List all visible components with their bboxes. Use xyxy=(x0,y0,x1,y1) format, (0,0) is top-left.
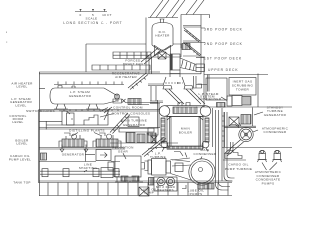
scale bar xyxy=(75,9,112,20)
handrail with stanchions xyxy=(54,82,124,85)
main boiler: steam drum xyxy=(159,103,211,117)
generator xyxy=(62,150,111,161)
boiler uptake diagonals to air heater xyxy=(148,75,209,105)
engine casing top / poop structure xyxy=(146,15,210,75)
L.P. steam system condenser label xyxy=(199,92,228,101)
svg-text:LEVEL: LEVEL xyxy=(12,120,23,124)
svg-text:LEVEL: LEVEL xyxy=(15,103,26,107)
svg-text:GENERATOR: GENERATOR xyxy=(69,94,92,98)
L.P. steam generator level deck xyxy=(39,110,160,112)
svg-text:LONG SECTION ℒ - PORT: LONG SECTION ℒ - PORT xyxy=(63,21,122,25)
distilling plants xyxy=(59,128,121,147)
condensate pumps xyxy=(255,150,282,185)
svg-text:BOILER: BOILER xyxy=(179,131,193,135)
control room level: room, door, console xyxy=(62,108,139,127)
D.O. heater vessel xyxy=(141,19,181,64)
svg-text:CONTROL ROOM: CONTROL ROOM xyxy=(113,105,143,109)
svg-text:GENERATOR: GENERATOR xyxy=(123,123,146,127)
svg-text:PUMP LEVEL: PUMP LEVEL xyxy=(9,157,31,161)
forward engine room bulkhead xyxy=(38,72,39,196)
inert gas scrubbing tower xyxy=(229,78,256,96)
boiler level deck xyxy=(39,148,125,150)
aft deck (cargo pump flat) xyxy=(222,147,292,149)
svg-text:LEVEL: LEVEL xyxy=(16,142,27,146)
svg-text:10 FT: 10 FT xyxy=(102,13,112,17)
standby turbine generator xyxy=(224,106,287,128)
svg-text:PUMPS: PUMPS xyxy=(262,181,275,185)
svg-text:CONDENSER: CONDENSER xyxy=(264,130,287,134)
svg-text:PUMPS: PUMPS xyxy=(190,192,203,196)
forced draft fan duct xyxy=(113,52,151,66)
main turbine generator xyxy=(110,113,178,143)
svg-text:0: 0 xyxy=(79,13,81,17)
1st poop deck line xyxy=(146,56,181,58)
svg-text:GENERATOR: GENERATOR xyxy=(264,113,287,117)
svg-text:TOWER: TOWER xyxy=(236,88,250,92)
svg-text:UPPER DECK: UPPER DECK xyxy=(208,68,238,72)
svg-text:CONDENSER: CONDENSER xyxy=(194,152,217,156)
rotary air heater box xyxy=(170,54,205,77)
main condenser xyxy=(171,148,217,189)
engine room upper flat xyxy=(150,104,292,108)
regenerative air heater band xyxy=(92,65,150,79)
svg-text:TANK TOP: TANK TOP xyxy=(13,180,31,184)
svg-text:3RD POOP DECK: 3RD POOP DECK xyxy=(204,28,243,32)
main boiler body xyxy=(167,117,203,147)
svg-text:AIR HEATER: AIR HEATER xyxy=(115,75,137,79)
svg-text:LEVEL: LEVEL xyxy=(16,85,27,89)
cargo oil pump turbine machine xyxy=(223,151,252,172)
svg-text:CONTROL CONSOLES: CONTROL CONSOLES xyxy=(112,111,151,115)
svg-text:PUMP TURBINE: PUMP TURBINE xyxy=(225,167,252,171)
funnel uptake pipes xyxy=(150,0,204,18)
control room floor deck xyxy=(39,128,160,130)
L.P. steam generator vessel xyxy=(50,86,118,110)
svg-text:CONDENSER: CONDENSER xyxy=(199,97,222,101)
svg-text:SUMP: SUMP xyxy=(144,190,154,194)
feed heaters xyxy=(139,177,177,196)
upper deck house xyxy=(204,57,268,107)
ladder to turbine flat xyxy=(142,137,166,157)
boiler downcomers xyxy=(161,118,209,152)
line shafting xyxy=(40,163,120,178)
L.P. turbine xyxy=(148,147,171,175)
aft engine room bulkhead xyxy=(213,108,225,181)
piping and pump right of vessel xyxy=(113,94,158,105)
svg-text:2ND POOP DECK: 2ND POOP DECK xyxy=(204,42,243,46)
inclined ladder to air heater flat xyxy=(128,73,148,90)
svg-text:GENERATOR: GENERATOR xyxy=(62,153,85,157)
svg-text:GEAR: GEAR xyxy=(118,149,129,153)
reduction gear xyxy=(108,146,148,182)
switchboard flat lines xyxy=(39,121,62,129)
stair tower with stairs xyxy=(182,26,201,57)
tank top and double bottom floors xyxy=(39,181,232,196)
svg-text:CARGO OIL: CARGO OIL xyxy=(228,163,248,167)
svg-text:SHAFTING: SHAFTING xyxy=(79,166,98,170)
atmospheric condenser xyxy=(225,123,289,157)
svg-text:HEATER: HEATER xyxy=(155,34,170,38)
condenser discharge pipes xyxy=(216,110,235,190)
svg-text:1ST POOP DECK: 1ST POOP DECK xyxy=(204,56,242,60)
air heater level deck (double line) xyxy=(39,72,201,74)
svg-text:SCALE: SCALE xyxy=(86,17,98,21)
boat deck (fan flat) xyxy=(86,44,146,72)
svg-text:DISTILLING PLANTS: DISTILLING PLANTS xyxy=(69,128,105,132)
L.P. steam system condenser machine xyxy=(227,96,251,107)
boiler front feed pump cluster xyxy=(148,100,159,143)
poop deck level ticks and labels xyxy=(201,28,243,61)
generator flat deck xyxy=(39,161,120,163)
svg-text:HEATERS: HEATERS xyxy=(157,188,174,192)
